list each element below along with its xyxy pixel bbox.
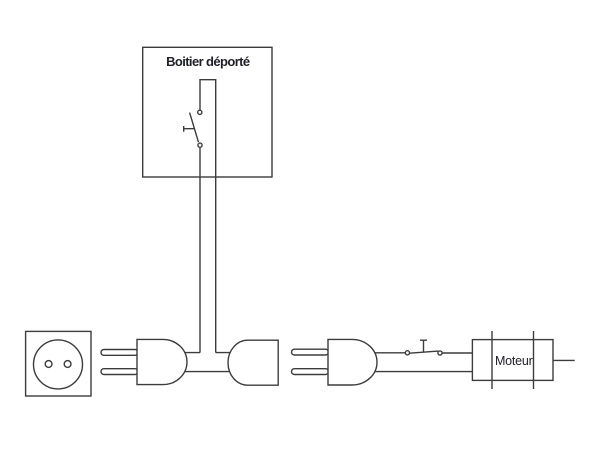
- box "Boitier deporte" enclosure: [143, 47, 272, 177]
- label "Moteur": [495, 354, 533, 368]
- plug P2 body: [328, 339, 377, 385]
- wire: vertical riser left (plug cable up to switch): [199, 147, 201, 352]
- socket J2 body (female connector): [228, 340, 278, 385]
- plug P2 prong bottom: [292, 369, 329, 375]
- plug P1 prong bottom: [101, 369, 138, 375]
- switch S2 left contact: [405, 351, 409, 355]
- wire: switch S2 to motor box: [442, 352, 474, 354]
- switch S1 bottom contact: [198, 143, 202, 147]
- wall socket hole left: [45, 361, 52, 368]
- switch S2 lever: [410, 351, 439, 353]
- switch S1 lever: [190, 113, 199, 143]
- svg-text:Boitier déporté: Boitier déporté: [166, 54, 250, 69]
- wall socket hole right: [64, 361, 71, 368]
- wire: tee left horizontal to plug P1: [182, 352, 200, 354]
- motor box M: [472, 340, 553, 381]
- motor box divider line left: [491, 331, 493, 389]
- label "Boitier déporté": [166, 54, 250, 69]
- plug P2 prong top: [292, 349, 329, 355]
- svg-text:Moteur: Moteur: [495, 354, 533, 368]
- wire: plug P2 bottom conductor to motor box: [372, 371, 474, 373]
- motor box divider line right: [533, 331, 535, 389]
- wire: plug P2 to switch S2: [372, 352, 405, 354]
- wire: tee right horizontal to socket J2: [216, 352, 232, 354]
- wire: motor output right: [553, 359, 575, 361]
- plug P1 prong top: [101, 350, 138, 356]
- wall socket outlet square: [26, 331, 91, 396]
- wire: bottom conductor plug P1 to socket J2: [182, 371, 232, 373]
- wire: top bridge over switch and right riser down to tee: [200, 80, 216, 353]
- switch S2 actuator handle: [420, 340, 427, 351]
- switch S1 actuator handle: [184, 126, 194, 132]
- wall socket face circle: [34, 340, 83, 389]
- switch S1 top contact: [198, 110, 202, 114]
- switch S2 right contact: [438, 351, 442, 355]
- plug P1 body: [137, 339, 187, 384]
